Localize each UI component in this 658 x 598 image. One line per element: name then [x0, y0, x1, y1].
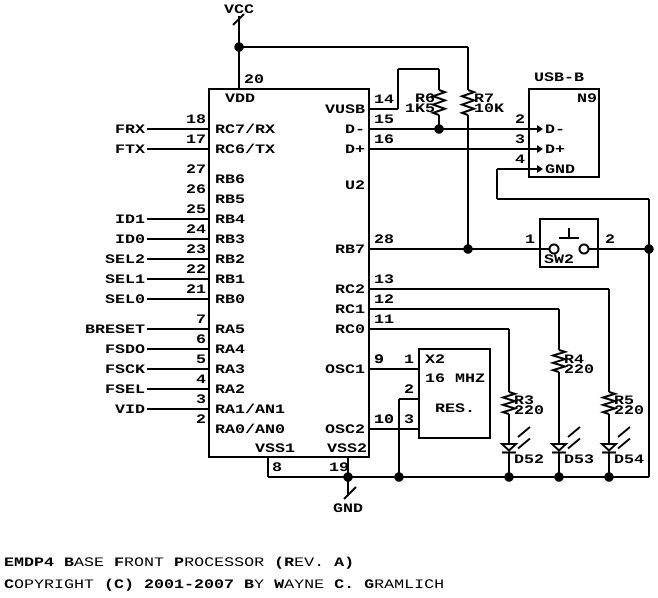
svg-text:21: 21: [186, 282, 206, 297]
svg-text:VID: VID: [115, 402, 145, 417]
svg-text:RA4: RA4: [215, 342, 245, 357]
svg-text:RB6: RB6: [215, 172, 245, 187]
svg-text:X2: X2: [425, 352, 445, 367]
svg-text:28: 28: [374, 232, 394, 247]
junction D53 / ground rail: [554, 472, 563, 481]
wire VSS2 stub: [347, 458, 349, 477]
svg-text:3: 3: [196, 392, 206, 407]
wire OSC2 net U2 pin 10 to X2 pin 3: [370, 428, 419, 430]
junction X2 pin 2 / ground rail: [394, 472, 403, 481]
svg-text:220: 220: [514, 403, 544, 418]
svg-text:4: 4: [196, 372, 206, 387]
wire net FSEL to pin 4: [147, 388, 209, 390]
wire RC1 net to R4 column: [370, 308, 559, 310]
wire VCC to U2 pin 20: [238, 47, 240, 89]
resistor R5: [603, 392, 615, 414]
svg-text:RB7: RB7: [335, 242, 365, 257]
svg-text:220: 220: [614, 403, 644, 418]
ground symbol slash: [344, 487, 356, 499]
svg-text:2: 2: [196, 412, 206, 427]
svg-text:D+: D+: [345, 142, 365, 157]
svg-text:D54: D54: [614, 452, 644, 467]
svg-text:OSC2: OSC2: [325, 422, 365, 437]
svg-text:22: 22: [186, 262, 206, 277]
svg-text:VSS1: VSS1: [255, 441, 295, 456]
svg-text:RB3: RB3: [215, 232, 245, 247]
switch SW2 contact 2: [580, 245, 589, 254]
svg-text:220: 220: [564, 362, 594, 377]
svg-text:EMDP4 BASE FRONT PROCESSOR (RE: EMDP4 BASE FRONT PROCESSOR (REV. A): [4, 555, 354, 570]
wire net FSCK to pin 5: [147, 368, 209, 370]
wire R7 bottom lead to RB7 net: [467, 115, 469, 249]
switch SW2 plunger: [568, 228, 570, 237]
svg-text:2: 2: [404, 382, 414, 397]
wire R6 top lead: [438, 69, 440, 90]
wire R3 to D52: [508, 414, 510, 444]
svg-text:GND: GND: [333, 501, 363, 516]
pin arrow USB GND: [529, 168, 537, 170]
svg-text:1: 1: [404, 352, 414, 367]
svg-text:RC2: RC2: [335, 282, 365, 297]
wire RC2 down to R5: [608, 289, 610, 392]
svg-text:27: 27: [186, 162, 206, 177]
junction VCC node: [234, 42, 243, 51]
wire net SEL0 to pin 21: [147, 298, 209, 300]
svg-text:9: 9: [374, 352, 384, 367]
svg-text:SEL1: SEL1: [105, 272, 145, 287]
resistor R7: [462, 90, 474, 115]
svg-text:RA5: RA5: [215, 322, 245, 337]
svg-text:GND: GND: [545, 162, 575, 177]
junction VSS2 / ground rail: [343, 472, 352, 481]
svg-text:VSS2: VSS2: [327, 441, 367, 456]
svg-text:VDD: VDD: [225, 91, 255, 106]
svg-text:23: 23: [186, 242, 206, 257]
svg-text:RA2: RA2: [215, 382, 245, 397]
wire net VID to pin 3: [147, 408, 209, 410]
wire R5 to D54: [608, 414, 610, 444]
junction D52 / ground rail: [504, 472, 513, 481]
svg-text:24: 24: [186, 222, 206, 237]
wire RB7 net U2 pin 28 to SW2 pin 1: [370, 248, 550, 250]
svg-text:26: 26: [186, 182, 206, 197]
wire RC0 down to R3: [508, 329, 510, 392]
svg-text:FSEL: FSEL: [105, 382, 145, 397]
wire D53 cathode to ground rail: [558, 453, 560, 477]
svg-text:RES.: RES.: [435, 401, 475, 416]
svg-text:10K: 10K: [474, 101, 504, 116]
svg-text:VUSB: VUSB: [325, 102, 365, 117]
svg-text:FRX: FRX: [115, 122, 145, 137]
svg-text:FTX: FTX: [115, 142, 145, 157]
svg-text:D52: D52: [514, 452, 544, 467]
wire RC2 net to R5 column: [370, 288, 609, 290]
wire X2 pin 2 to ground rail: [398, 399, 400, 477]
svg-text:SEL2: SEL2: [105, 252, 145, 267]
wire net ID0 to pin 24: [147, 238, 209, 240]
power VCC symbol slash: [233, 14, 244, 25]
pin arrow USB D+: [529, 148, 537, 150]
svg-text:8: 8: [272, 460, 282, 475]
svg-text:N9: N9: [577, 91, 597, 106]
svg-text:2: 2: [605, 232, 615, 247]
LED D54: [602, 444, 616, 451]
wire OSC1 net U2 pin 9 to X2 pin 1: [370, 368, 419, 370]
wire VCC rail to R7: [239, 46, 468, 48]
svg-text:D53: D53: [564, 452, 594, 467]
svg-text:RA0/AN0: RA0/AN0: [215, 422, 285, 437]
svg-text:13: 13: [374, 272, 394, 287]
wire RC1 down to R4: [558, 309, 560, 350]
wire VUSB top to R6: [398, 68, 439, 70]
svg-text:7: 7: [196, 312, 206, 327]
wire net SEL1 to pin 22: [147, 278, 209, 280]
svg-text:RB2: RB2: [215, 252, 245, 267]
wire D- net U2 pin 15 to USB pin 2: [370, 128, 529, 130]
wire USB GND to ground rail (right edge): [648, 199, 650, 477]
svg-text:17: 17: [186, 132, 206, 147]
svg-text:RC0: RC0: [335, 322, 365, 337]
svg-text:BRESET: BRESET: [85, 322, 145, 337]
svg-text:6: 6: [196, 332, 206, 347]
resistor R4: [553, 350, 565, 372]
svg-text:1: 1: [525, 232, 535, 247]
svg-text:D+: D+: [545, 142, 565, 157]
wire R4 to D53: [558, 372, 560, 444]
wire ground rail: [268, 476, 649, 478]
svg-text:3: 3: [404, 412, 414, 427]
junction SW2 pin 2 / ground riser: [644, 244, 653, 253]
svg-text:USB-B: USB-B: [534, 70, 584, 85]
svg-text:RA3: RA3: [215, 362, 245, 377]
svg-text:1K5: 1K5: [405, 101, 435, 116]
wire net FRX to pin 18: [147, 128, 209, 130]
svg-text:FSDO: FSDO: [105, 342, 145, 357]
svg-text:15: 15: [374, 112, 394, 127]
wire USB GND across: [497, 198, 649, 200]
LED D53: [552, 444, 566, 451]
svg-text:RB1: RB1: [215, 272, 245, 287]
wire net ID1 to pin 25: [147, 218, 209, 220]
svg-text:SW2: SW2: [544, 252, 574, 267]
switch SW2 body: [540, 219, 598, 267]
svg-text:SEL0: SEL0: [105, 292, 145, 307]
ground symbol stem: [347, 477, 349, 496]
wire net BRESET to pin 7: [147, 328, 209, 330]
wire USB GND down: [496, 169, 498, 199]
svg-text:20: 20: [244, 72, 264, 87]
svg-text:U2: U2: [345, 178, 365, 193]
switch SW2 contact 1: [550, 245, 559, 254]
wire D52 cathode to ground rail: [508, 453, 510, 477]
svg-text:11: 11: [374, 312, 394, 327]
svg-text:4: 4: [515, 152, 525, 167]
svg-text:OSC1: OSC1: [325, 362, 365, 377]
wire VCC stub down from VCC symbol: [238, 16, 240, 47]
svg-text:D-: D-: [345, 122, 365, 137]
svg-text:RC6/TX: RC6/TX: [215, 142, 275, 157]
junction R6 / D- net: [434, 124, 443, 133]
svg-text:5: 5: [196, 352, 206, 367]
wire net FSDO to pin 6: [147, 348, 209, 350]
svg-text:14: 14: [374, 92, 394, 107]
svg-text:RB5: RB5: [215, 192, 245, 207]
svg-text:RB0: RB0: [215, 292, 245, 307]
svg-text:D-: D-: [545, 122, 565, 137]
op-amp U2 main IC body (PIC microcontroller): [209, 89, 369, 457]
wire net SEL2 to pin 23: [147, 258, 209, 260]
wire D+ net U2 pin 16 to USB pin 3: [370, 148, 529, 150]
svg-text:COPYRIGHT (C) 2001-2007 BY WAY: COPYRIGHT (C) 2001-2007 BY WAYNE C. GRAM…: [4, 577, 444, 592]
svg-text:12: 12: [374, 292, 394, 307]
svg-text:RA1/AN1: RA1/AN1: [215, 402, 285, 417]
wire VUSB riser: [397, 69, 399, 109]
svg-text:18: 18: [186, 112, 206, 127]
svg-text:RC1: RC1: [335, 302, 365, 317]
svg-text:2: 2: [515, 112, 525, 127]
svg-text:ID1: ID1: [115, 212, 145, 227]
svg-text:16: 16: [374, 132, 394, 147]
resistor R6: [433, 90, 445, 115]
svg-text:10: 10: [374, 412, 394, 427]
connector N9 USB-B body: [529, 89, 599, 177]
wire VSS1 stub: [267, 458, 269, 477]
resonator X2 body: [419, 349, 490, 438]
wire USB GND lead: [497, 168, 529, 170]
junction D54 / ground rail: [604, 472, 613, 481]
resistor R3: [503, 392, 515, 414]
LED D52: [502, 444, 516, 451]
pin arrow USB D-: [529, 128, 537, 130]
svg-text:16 MHZ: 16 MHZ: [425, 371, 485, 386]
junction R7 / RB7 net: [463, 244, 472, 253]
wire net FTX to pin 17: [147, 148, 209, 150]
wire U2 pin 14 VUSB stub: [370, 108, 398, 110]
svg-text:VCC: VCC: [224, 2, 254, 17]
wire R7 top lead from VCC rail: [467, 47, 469, 90]
svg-text:25: 25: [186, 202, 206, 217]
svg-text:RC7/RX: RC7/RX: [215, 122, 275, 137]
wire R6 bottom lead: [438, 115, 440, 129]
svg-text:FSCK: FSCK: [105, 362, 145, 377]
svg-text:RB4: RB4: [215, 212, 245, 227]
wire SW2 pin 2 to ground net: [588, 248, 649, 250]
wire D54 cathode to ground rail: [608, 453, 610, 477]
svg-text:3: 3: [515, 132, 525, 147]
wire RC0 net to R3 column: [370, 328, 509, 330]
svg-text:ID0: ID0: [115, 232, 145, 247]
wire X2 pin 2 lead: [399, 398, 419, 400]
